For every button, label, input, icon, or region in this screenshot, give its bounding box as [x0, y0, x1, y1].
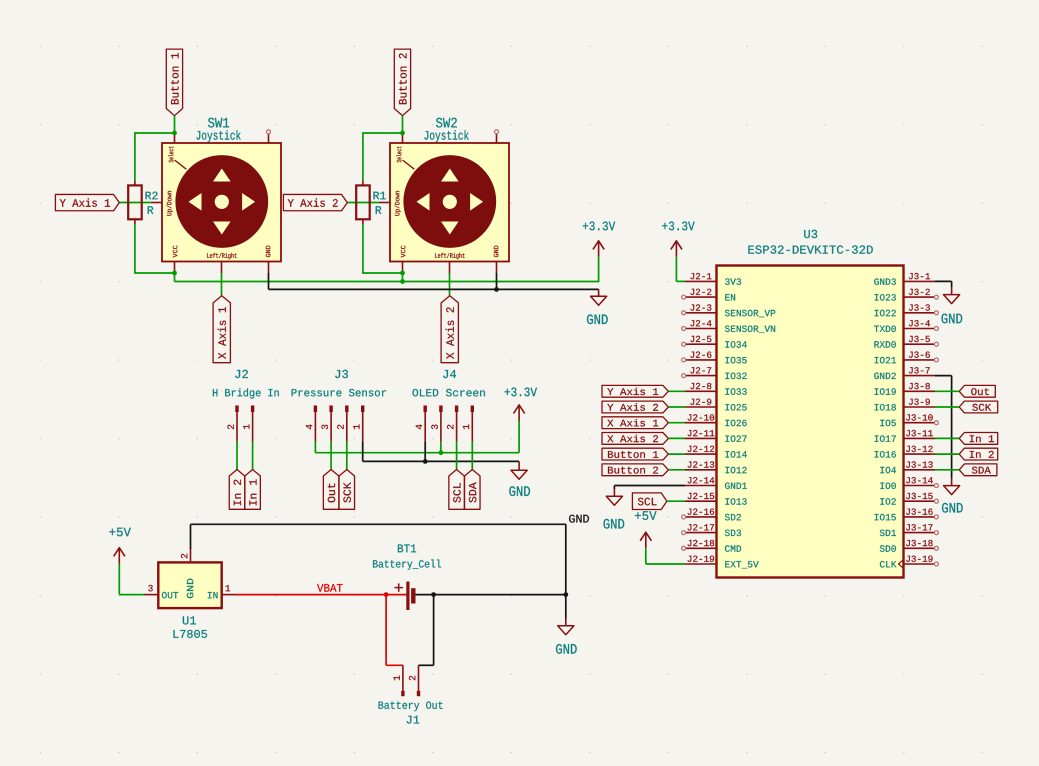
U3 pin J2-7 IO32: [682, 367, 747, 379]
global label X Axis 2 (U3): [602, 433, 668, 445]
junction: [400, 131, 405, 136]
U3 pin J3-1 GND3: [874, 273, 935, 285]
wire resistor top to Select net: [362, 133, 402, 181]
wire J3-8 to Out: [935, 390, 959, 392]
joystick SW1 pin Up/Down: [151, 202, 162, 204]
junction: [172, 131, 177, 136]
joystick SW2 unconnected pin: [495, 130, 499, 143]
global label Out (U3): [959, 385, 995, 397]
joystick SW2 reference: [424, 118, 468, 143]
wire Y Axis 1 to Up/Down pin: [119, 202, 151, 204]
global label Out: [323, 470, 339, 510]
wire J4 pin4 to GND rail: [424, 442, 426, 462]
wire J2-14 GND1 to ground: [614, 486, 685, 490]
connector J2 pin 1: [243, 406, 254, 442]
wire X Axis 2 to J2-11: [668, 437, 685, 439]
joystick SW1 body: [162, 143, 281, 262]
net label VBAT: [317, 584, 343, 592]
battery BT1: [373, 545, 441, 611]
joystick SW1 pin Select: [174, 133, 176, 143]
ground (U3 left): [604, 489, 625, 528]
wire VCC bus: [175, 272, 599, 281]
global label X Axis 1 (U3): [602, 417, 668, 429]
global label Button 1 (U3): [602, 448, 668, 460]
power +5V (regulator): [109, 528, 131, 564]
net label GND: [569, 515, 589, 523]
connector J4 reference: [413, 370, 485, 396]
wire J3-11 to In 1: [935, 437, 959, 439]
wire GND bus: [269, 273, 599, 289]
U3 pin J2-16 SD2: [682, 509, 741, 521]
U3 pin J2-17 SD3: [682, 524, 741, 536]
wire Y Axis 2 to J2-9: [668, 406, 685, 408]
junction GND rail J4: [423, 459, 428, 464]
wire U1 GND to battery ground net: [191, 524, 566, 594]
U3 pin J2-14 GND1: [685, 477, 747, 489]
connector J4 pin 1: [463, 406, 474, 442]
global label Y Axis 1: [55, 194, 119, 210]
connector J3 pin 1: [353, 406, 364, 442]
U3 pin J2-4 SENSOR_VN: [682, 320, 776, 333]
U3 pin J3-3 IO22: [875, 304, 939, 316]
U3 pin J2-15 IO13: [685, 493, 747, 505]
U3 pin J2-5 IO34: [682, 336, 747, 348]
U1 pin 3 OUT: [144, 585, 158, 595]
connector J3 pin 4: [306, 406, 317, 442]
global label Button 1: [166, 49, 182, 116]
U3 pin J2-13 IO12: [685, 461, 747, 473]
ground (U3 right bottom): [942, 479, 963, 513]
global label In 2: [229, 470, 245, 510]
ground (joysticks): [587, 289, 608, 324]
wire J3-7 GND2 to ground: [935, 376, 952, 479]
U3 pin J3-17 SD1: [880, 524, 939, 536]
power +3.3V (joysticks): [583, 222, 615, 257]
connector J3 reference: [292, 370, 387, 397]
U1 pin 1 IN: [222, 585, 236, 595]
wire resistor bottom to VCC net: [362, 224, 402, 273]
U3 pin J2-2 EN: [682, 289, 736, 301]
power +3.3V (U3): [662, 222, 694, 257]
wire Button 1 to Select pin: [174, 116, 176, 134]
U3 pin J3-10 IO5: [880, 414, 938, 426]
wire J3-1 GND3 to ground: [935, 281, 952, 287]
joystick SW1 pin GND: [268, 262, 270, 274]
wire Button 1 to J2-12: [668, 453, 685, 455]
wire VCC bus up to +3.3V: [598, 257, 600, 283]
resistor R2: [128, 181, 157, 225]
U3 pin J3-8 IO19: [875, 383, 935, 395]
U3 pin J2-8 IO33: [685, 383, 747, 395]
connector J4 pin 2: [447, 406, 458, 442]
wire J4 pin3 to +3.3V rail: [440, 442, 442, 453]
wire J2 pin2 to In 2: [236, 442, 238, 470]
connector J1 pin 2: [409, 665, 420, 696]
global label Button 2: [394, 49, 410, 116]
wire J3 pin2 to SCK: [346, 442, 348, 470]
wire +3.3V rail riser: [518, 420, 520, 452]
junction battery minus: [431, 592, 436, 597]
global label SCK (U3): [959, 401, 998, 413]
joystick SW1 unconnected pin: [267, 130, 271, 143]
global label Button 2 (U3): [602, 464, 668, 476]
global label Y Axis 1 (U3): [602, 385, 668, 397]
wire J3 pin4 to +3.3V rail: [315, 442, 519, 453]
joystick SW2 pin VCC: [402, 262, 404, 274]
junction +3.3V rail J4: [439, 450, 444, 455]
U1 reference: [174, 616, 208, 638]
ground (connectors): [509, 461, 530, 496]
wire J4 pin1 to SDA: [471, 442, 473, 470]
U3 pin J3-5 RXD0: [874, 336, 938, 348]
U3 pin J2-9 IO25: [685, 399, 747, 411]
U1 pin 2 GND: [181, 548, 191, 562]
ground (U3 right top): [942, 288, 963, 324]
wire Left/Right pin to X Axis 1: [221, 273, 223, 296]
connector J2 pin 2: [227, 406, 238, 442]
global label SDA (U3): [959, 464, 997, 476]
power +3.3V (connectors): [505, 388, 537, 421]
IC U3 ESP32-DEVKITC-32D body: [717, 266, 904, 578]
connector J1 pin 1: [393, 665, 404, 696]
joystick SW2 pin Select: [402, 133, 404, 143]
connector J4 pin 3: [431, 406, 442, 442]
U3 pin J3-14 IO0: [880, 477, 938, 489]
U3 pin J2-10 IO26: [685, 414, 747, 426]
wire Button 2 to Select pin: [402, 116, 404, 134]
wire Left/Right pin to X Axis 2: [449, 273, 451, 296]
wire J3-12 to In 2: [935, 453, 959, 455]
global label In 1 (U3): [959, 433, 998, 445]
U3 pin J2-3 SENSOR_VP: [682, 304, 776, 317]
joystick SW2 pin Up/Down: [379, 202, 390, 204]
regulator U1 body: [158, 562, 221, 608]
joystick SW1 pin VCC: [174, 262, 176, 274]
wire J3 pin3 to Out: [330, 442, 332, 470]
global label In 1: [245, 470, 261, 510]
junction ground net: [563, 592, 568, 597]
U3 pin J3-6 IO21: [875, 352, 939, 364]
wire Button 2 to J2-13: [668, 469, 685, 471]
wire J2 pin1 to In 1: [252, 442, 254, 470]
joystick SW1 reference: [196, 118, 240, 143]
wire battery minus: [416, 594, 566, 596]
U3 reference: [748, 230, 872, 254]
connector J2 reference: [213, 370, 279, 399]
junction SW2 VCC pin: [400, 271, 405, 276]
junction GND bus SW2: [494, 287, 499, 292]
resistor R1: [356, 181, 386, 225]
power +5V (U3): [635, 511, 657, 548]
U3 pin J2-18 CMD: [682, 540, 742, 552]
global label SCL (U3): [632, 493, 667, 510]
U3 pin J3-9 IO18: [875, 399, 935, 411]
wire resistor top to Select net: [134, 133, 174, 181]
U3 pin J2-1 3V3: [685, 273, 741, 285]
U3 pin J3-15 IO2: [880, 493, 938, 505]
global label Y Axis 2 (U3): [602, 401, 668, 413]
global label SCK: [339, 470, 355, 510]
global label Y Axis 2: [283, 194, 347, 210]
global label X Axis 1: [213, 296, 230, 363]
wire SW2 GND drop: [496, 273, 498, 289]
U3 pin J3-16 IO15: [875, 509, 939, 521]
global label X Axis 2: [441, 296, 458, 363]
U3 pin J2-12 IO14: [685, 446, 747, 458]
joystick SW2 pin Left/Right: [449, 262, 451, 274]
U3 pin J3-4 TXD0: [874, 320, 938, 332]
U3 pin J3-11 IO17: [875, 430, 935, 442]
wire Y Axis 2 to Up/Down pin: [347, 202, 379, 204]
U3 pin J2-19 EXT_5V: [685, 556, 759, 569]
ground (battery): [556, 595, 577, 654]
wire Y Axis 1 to J2-8: [668, 390, 685, 392]
U3 pin J2-11 IO27: [685, 430, 747, 442]
connector J3 pin 3: [322, 406, 333, 442]
U3 pin J2-6 IO35: [682, 352, 747, 364]
wire GND to J1 pin 2: [419, 595, 434, 666]
global label SCL (OLED): [449, 470, 465, 510]
wire +5V to U1 OUT: [119, 564, 144, 595]
wire X Axis 1 to J2-10: [668, 422, 685, 424]
joystick SW1 pin Left/Right: [221, 262, 223, 274]
wire J3-13 to SDA: [935, 469, 959, 471]
wire +3.3V to J2-1: [676, 257, 685, 282]
wire +5V to J2-19: [646, 548, 685, 564]
joystick SW2 body: [390, 143, 509, 262]
joystick SW2 pin GND: [496, 262, 498, 274]
global label SDA: [465, 470, 481, 510]
wire SCL to J2-15: [667, 500, 685, 502]
connector J4 pin 4: [416, 406, 427, 442]
junction VBAT: [384, 592, 389, 597]
junction VCC bus SW2: [400, 279, 405, 284]
wire J4 pin2 to SCL: [456, 442, 458, 470]
U3 pin J3-13 IO4: [880, 461, 935, 473]
U3 pin J3-19 CLK: [880, 556, 939, 569]
wire J3-9 to SCK: [935, 406, 959, 408]
U3 pin J3-18 SD0: [880, 540, 939, 552]
U3 pin J3-7 GND2: [874, 367, 935, 379]
wire VBAT U1 IN to battery: [236, 594, 407, 596]
junction SW1 VCC: [172, 271, 177, 276]
U3 pin J3-2 IO23: [875, 289, 939, 301]
connector J1 reference: [379, 701, 443, 723]
U3 pin J3-12 IO16: [875, 446, 935, 458]
connector J3 pin 2: [337, 406, 348, 442]
global label In 2 (U3): [959, 448, 998, 460]
wire VBAT to J1 pin 1: [386, 595, 403, 666]
wire J3 pin1 to GND rail: [363, 442, 519, 462]
wire SW2 VCC drop: [402, 272, 404, 281]
wire resistor bottom to VCC net: [134, 224, 174, 273]
